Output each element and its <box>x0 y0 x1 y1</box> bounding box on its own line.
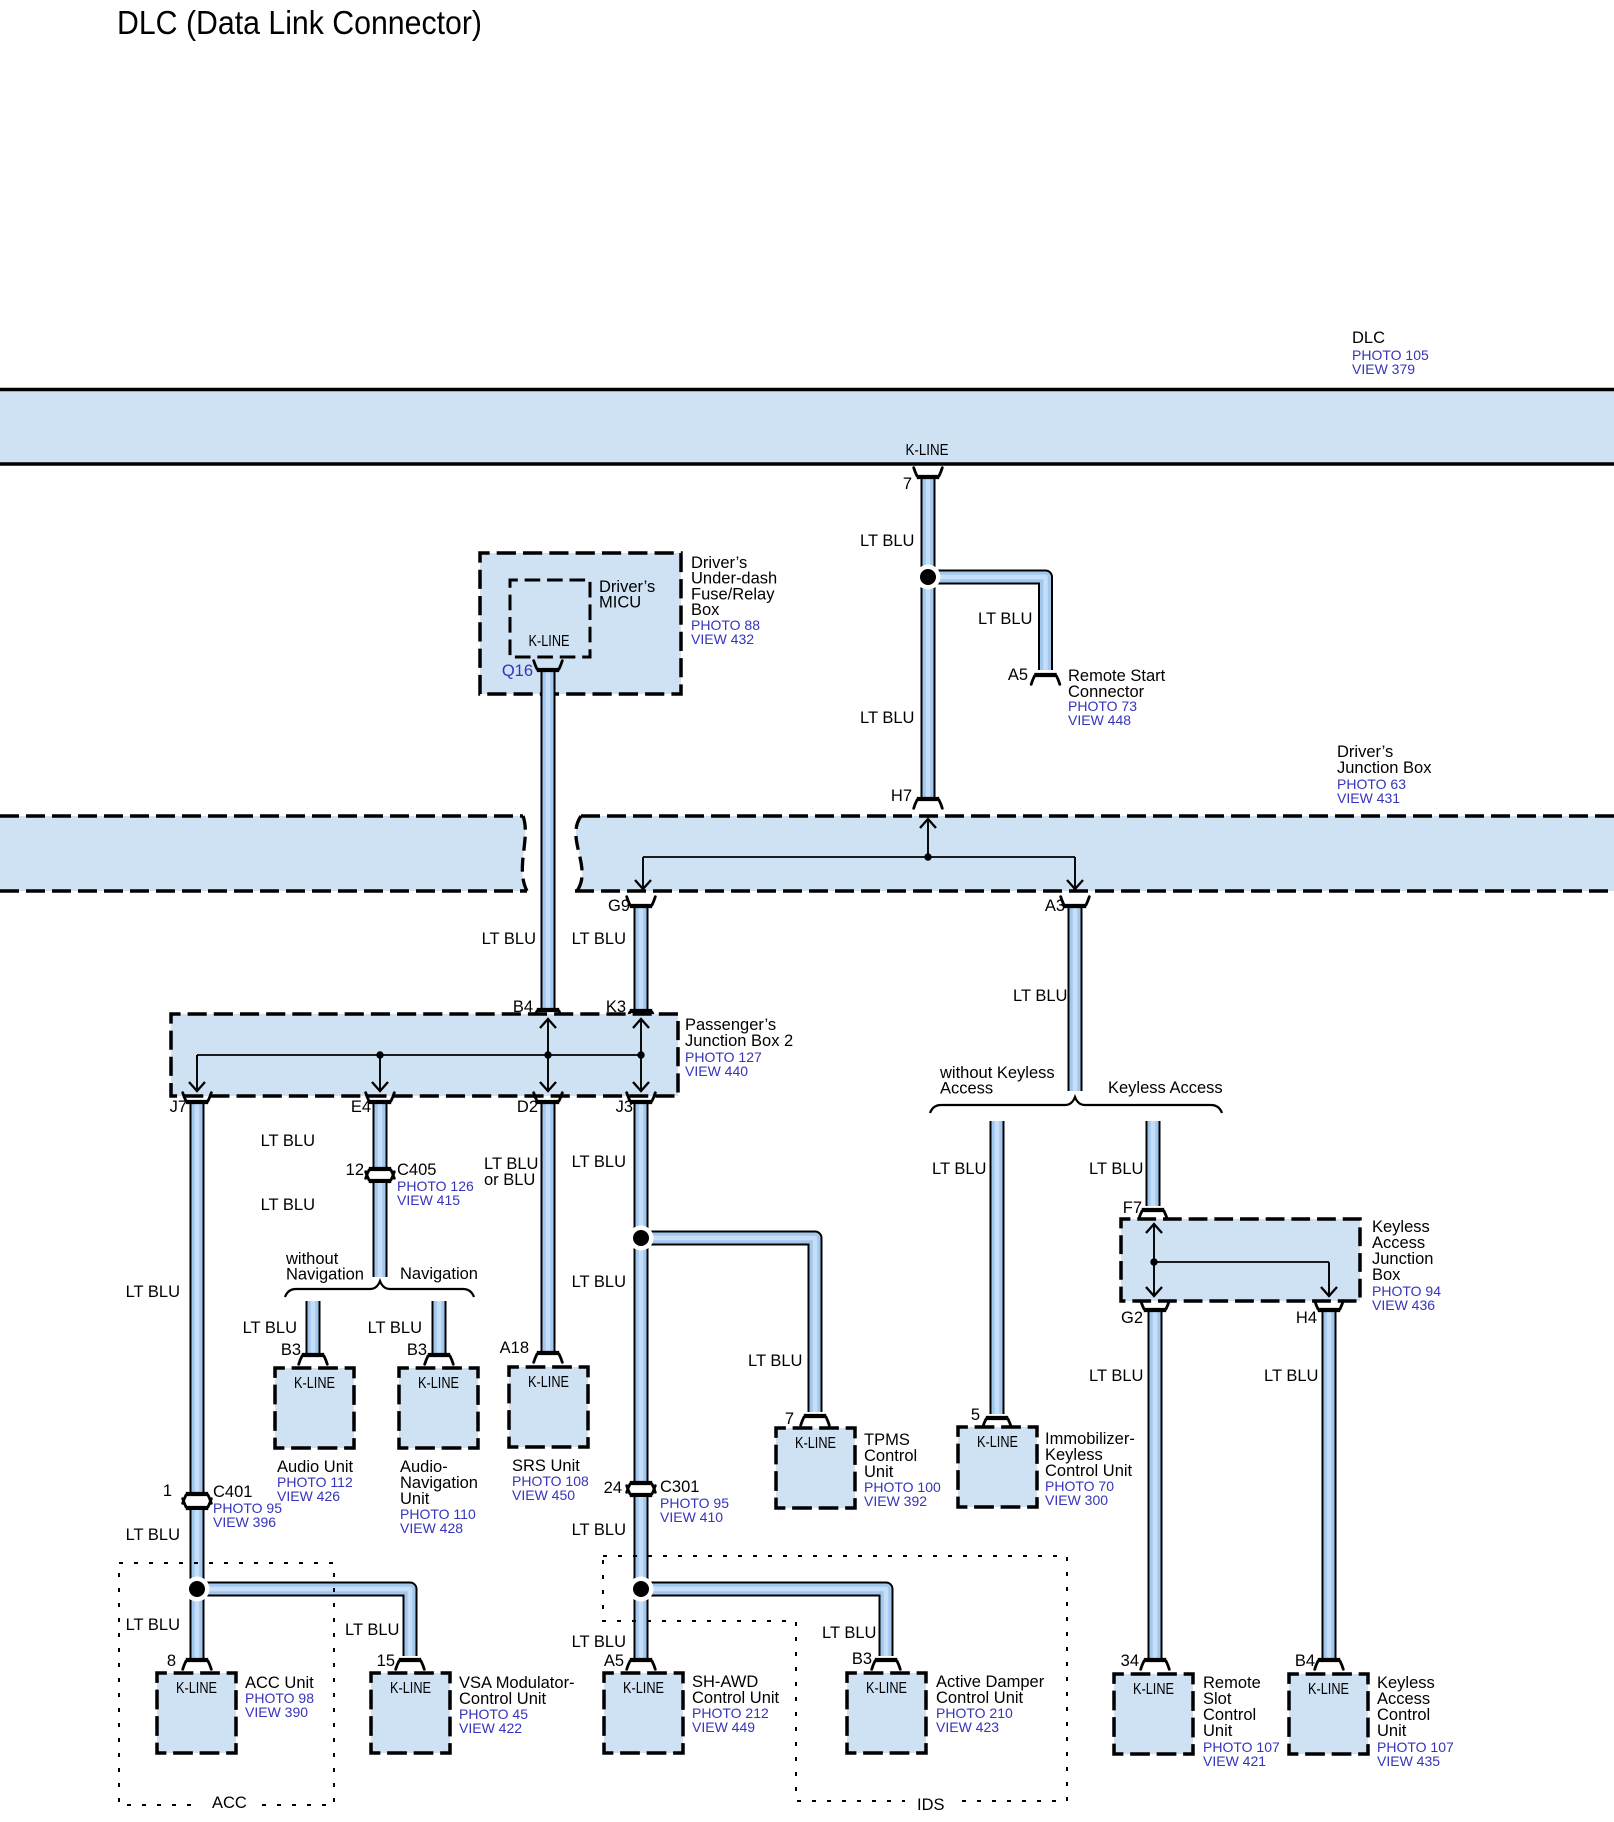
svg-text:VIEW 448: VIEW 448 <box>1068 712 1131 728</box>
svg-text:A18: A18 <box>500 1339 529 1357</box>
svg-text:F7: F7 <box>1123 1199 1142 1217</box>
svg-text:Keyless Access: Keyless Access <box>1108 1079 1223 1097</box>
svg-text:Unit: Unit <box>1203 1722 1233 1740</box>
svg-text:LT BLU: LT BLU <box>261 1132 315 1150</box>
svg-text:Junction Box: Junction Box <box>1337 759 1432 777</box>
svg-text:8: 8 <box>167 1652 176 1670</box>
svg-text:7: 7 <box>903 475 912 493</box>
svg-text:LT BLU: LT BLU <box>261 1196 315 1214</box>
svg-text:LT BLU: LT BLU <box>1013 987 1067 1005</box>
svg-text:VIEW 390: VIEW 390 <box>245 1704 308 1720</box>
svg-text:VIEW 392: VIEW 392 <box>864 1493 927 1509</box>
svg-text:VIEW 396: VIEW 396 <box>213 1514 276 1530</box>
svg-text:LT BLU: LT BLU <box>822 1624 876 1642</box>
svg-text:VIEW 422: VIEW 422 <box>459 1720 522 1736</box>
svg-text:B3: B3 <box>407 1341 427 1359</box>
svg-text:LT BLU: LT BLU <box>748 1352 802 1370</box>
svg-text:Navigation: Navigation <box>286 1266 364 1284</box>
svg-text:LT BLU: LT BLU <box>932 1160 986 1178</box>
svg-text:LT BLU: LT BLU <box>572 1521 626 1539</box>
svg-text:VIEW 436: VIEW 436 <box>1372 1297 1435 1313</box>
svg-text:Unit: Unit <box>1377 1722 1407 1740</box>
svg-text:34: 34 <box>1121 1652 1139 1670</box>
svg-text:VIEW 415: VIEW 415 <box>397 1192 460 1208</box>
svg-text:LT BLU: LT BLU <box>978 610 1032 628</box>
svg-text:K-LINE: K-LINE <box>906 442 949 459</box>
svg-text:VIEW 431: VIEW 431 <box>1337 790 1400 806</box>
svg-text:G9: G9 <box>608 897 630 915</box>
svg-text:VIEW 423: VIEW 423 <box>936 1719 999 1735</box>
svg-text:VIEW 426: VIEW 426 <box>277 1488 340 1504</box>
svg-text:12: 12 <box>346 1161 364 1179</box>
svg-text:IDS: IDS <box>917 1796 945 1814</box>
svg-text:VIEW 440: VIEW 440 <box>685 1063 748 1079</box>
svg-text:24: 24 <box>604 1479 622 1497</box>
svg-text:VIEW 379: VIEW 379 <box>1352 361 1415 377</box>
svg-text:or BLU: or BLU <box>484 1171 535 1189</box>
svg-text:B3: B3 <box>852 1650 872 1668</box>
svg-text:C405: C405 <box>397 1161 436 1179</box>
svg-text:LT BLU: LT BLU <box>572 1633 626 1651</box>
svg-text:5: 5 <box>971 1406 980 1424</box>
svg-text:B4: B4 <box>1295 1652 1315 1670</box>
svg-text:LT BLU: LT BLU <box>860 532 914 550</box>
svg-text:Junction Box 2: Junction Box 2 <box>685 1032 793 1050</box>
svg-text:Access: Access <box>940 1080 993 1098</box>
svg-text:VIEW 450: VIEW 450 <box>512 1487 575 1503</box>
svg-text:VIEW 432: VIEW 432 <box>691 631 754 647</box>
svg-text:1: 1 <box>163 1482 172 1500</box>
svg-text:ACC: ACC <box>212 1794 247 1812</box>
svg-text:H7: H7 <box>891 787 912 805</box>
svg-text:MICU: MICU <box>599 594 641 612</box>
svg-text:DLC (Data Link Connector): DLC (Data Link Connector) <box>117 4 482 41</box>
svg-text:B3: B3 <box>281 1341 301 1359</box>
svg-text:LT BLU: LT BLU <box>1089 1160 1143 1178</box>
svg-text:LT BLU: LT BLU <box>1264 1367 1318 1385</box>
svg-text:A5: A5 <box>1008 666 1028 684</box>
svg-text:VIEW 421: VIEW 421 <box>1203 1753 1266 1769</box>
svg-text:LT BLU: LT BLU <box>368 1319 422 1337</box>
svg-text:LT BLU: LT BLU <box>345 1621 399 1639</box>
svg-text:G2: G2 <box>1121 1309 1143 1327</box>
svg-text:LT BLU: LT BLU <box>572 1273 626 1291</box>
svg-text:LT BLU: LT BLU <box>482 930 536 948</box>
svg-text:DLC: DLC <box>1352 329 1385 347</box>
svg-text:H4: H4 <box>1296 1309 1317 1327</box>
svg-text:LT BLU: LT BLU <box>860 709 914 727</box>
svg-text:A3: A3 <box>1045 897 1065 915</box>
svg-text:LT BLU: LT BLU <box>126 1616 180 1634</box>
svg-text:K-LINE: K-LINE <box>529 633 570 650</box>
svg-text:D2: D2 <box>517 1098 538 1116</box>
svg-text:LT BLU: LT BLU <box>1089 1367 1143 1385</box>
svg-text:LT BLU: LT BLU <box>126 1283 180 1301</box>
svg-text:Navigation: Navigation <box>400 1265 478 1283</box>
svg-text:A5: A5 <box>604 1652 624 1670</box>
svg-text:LT BLU: LT BLU <box>572 1153 626 1171</box>
svg-text:VIEW 300: VIEW 300 <box>1045 1492 1108 1508</box>
svg-text:LT BLU: LT BLU <box>126 1526 180 1544</box>
svg-text:15: 15 <box>377 1652 395 1670</box>
svg-text:VIEW 449: VIEW 449 <box>692 1719 755 1735</box>
svg-text:LT BLU: LT BLU <box>243 1319 297 1337</box>
svg-text:C401: C401 <box>213 1483 252 1501</box>
svg-text:VIEW 435: VIEW 435 <box>1377 1753 1440 1769</box>
svg-text:C301: C301 <box>660 1478 699 1496</box>
svg-text:Q16: Q16 <box>502 662 533 680</box>
svg-text:Box: Box <box>1372 1266 1401 1284</box>
svg-text:VIEW 428: VIEW 428 <box>400 1520 463 1536</box>
svg-text:VIEW 410: VIEW 410 <box>660 1509 723 1525</box>
svg-text:LT BLU: LT BLU <box>572 930 626 948</box>
svg-text:7: 7 <box>785 1410 794 1428</box>
